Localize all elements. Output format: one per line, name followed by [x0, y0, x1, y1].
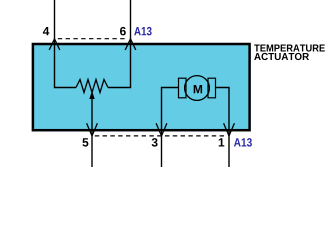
wire pin 1 (motor right lead) [216, 88, 230, 168]
component name line 1 [254, 45, 325, 52]
wire pin 6 vertical + horizontal to resistor [108, 0, 131, 88]
component name line 2 [254, 53, 309, 60]
dashed connector line top (pins 4-6) [58, 38, 128, 40]
connector label A13 top [134, 27, 151, 36]
resistor R (potentiometer element) [76, 80, 108, 93]
pin number 3 [152, 138, 158, 147]
motor label M [194, 85, 202, 93]
wire pin 5 (wiper stem to bottom) [91, 97, 93, 167]
motor brush left [179, 78, 187, 98]
potentiometer wiper arrow [89, 91, 94, 99]
connector label A13 bottom [234, 138, 252, 147]
pin number 6 [120, 27, 126, 35]
pin 3 arrow (down) [156, 123, 167, 136]
wire pin 4 vertical + horizontal to resistor [55, 0, 77, 88]
wire pin 3 (motor left lead) [162, 88, 179, 168]
pin 6 arrow (up) [125, 39, 136, 50]
motor brush right [208, 78, 216, 98]
pin 1 arrow (down) [224, 123, 235, 136]
pin number 5 [82, 138, 88, 146]
pin number 1 [219, 138, 225, 146]
pin 4 arrow (up) [49, 39, 60, 50]
pin 5 arrow (down) [87, 123, 98, 136]
dashed connector line bottom (pins 5-3-1) [95, 135, 227, 137]
pin number 4 [43, 27, 49, 35]
component box U (temperature actuator) [33, 44, 250, 130]
motor M circle [185, 76, 210, 101]
